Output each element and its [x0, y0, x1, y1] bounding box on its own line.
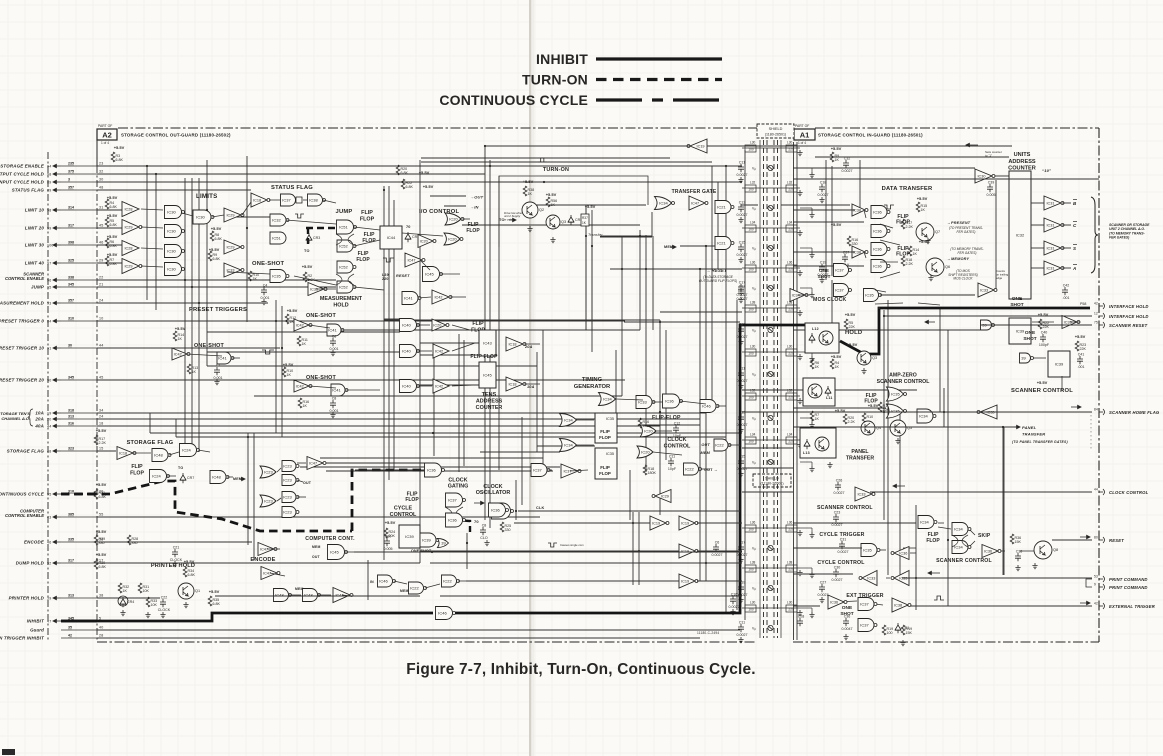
- svg-text:IC42: IC42: [174, 353, 182, 357]
- svg-text:0.001: 0.001: [330, 409, 339, 413]
- svg-text:23: 23: [99, 162, 103, 166]
- stub wire 39: [576, 444, 594, 446]
- svg-text:15K: 15K: [1015, 540, 1022, 544]
- shield row wire 3: [742, 187, 800, 189]
- svg-text:6.8K: 6.8K: [99, 565, 107, 569]
- stub wire 50: [133, 452, 151, 454]
- svg-text:HOLD: HOLD: [333, 303, 348, 309]
- svg-text:IC20: IC20: [433, 324, 441, 328]
- rail computer-control-enable: [97, 516, 540, 518]
- shield row ground right 21: [797, 610, 802, 616]
- svg-text:CONTINUOUS CYCLE: CONTINUOUS CYCLE: [0, 492, 45, 497]
- stub wire 96: [1061, 376, 1063, 390]
- svg-text:2.2K: 2.2K: [99, 441, 107, 445]
- NAND gate IC35 one-shot: [270, 270, 289, 283]
- svg-text:FLIP: FLIP: [928, 532, 939, 538]
- wire junction 6: [489, 165, 491, 167]
- svg-text:C11: C11: [739, 621, 745, 625]
- svg-text:L34: L34: [750, 433, 756, 437]
- resistor R11 22K: [878, 402, 889, 412]
- svg-text:IC45: IC45: [483, 373, 492, 378]
- svg-text:P58: P58: [1080, 302, 1086, 306]
- NAND gate IC37 ext b: [858, 619, 877, 632]
- rail 20A: [97, 418, 700, 420]
- strip extra ground 418: [809, 422, 814, 428]
- svg-text:JUMP: JUMP: [336, 209, 353, 215]
- capacitor C36 ext: [842, 615, 853, 632]
- svg-text:CONTROL ENABLE: CONTROL ENABLE: [5, 513, 44, 518]
- svg-text:SCANNER CONTROL: SCANNER CONTROL: [817, 505, 873, 511]
- resistor R10 1K: [248, 271, 259, 281]
- label MEASUREMENT HOLD: [320, 296, 363, 309]
- svg-text:39: 39: [441, 541, 446, 546]
- transistor Q3: [546, 215, 566, 229]
- stub wire 93: [1032, 321, 1054, 323]
- shield crossing circle 2: [768, 165, 773, 170]
- NAND gate IC34 skip c: [952, 541, 971, 554]
- label CLOCK GATING: [448, 478, 469, 490]
- NAND gate IC38 ff b1: [871, 243, 890, 256]
- rail printer-hold: [97, 597, 160, 599]
- legend inhibit solid line: [596, 57, 722, 60]
- strip extra stub 418: [800, 417, 812, 419]
- svg-text:91: 91: [47, 347, 51, 351]
- svg-text:IC23: IC23: [264, 470, 273, 475]
- stub wire 47: [728, 444, 740, 446]
- stub wire 41: [652, 401, 662, 403]
- buffer IC18 storage flag: [117, 447, 136, 460]
- rail a1 top1: [815, 156, 1009, 158]
- svg-text:0.0027: 0.0027: [729, 605, 740, 609]
- svg-text:IC42: IC42: [296, 385, 304, 389]
- buffer IC31 counter out A: [1044, 261, 1064, 275]
- bus a1 v9: [825, 160, 827, 280]
- rail web y237: [600, 236, 652, 238]
- bus v13: [705, 246, 707, 581]
- svg-text:0.0027: 0.0027: [737, 633, 748, 637]
- resistor R11 1K: [297, 336, 308, 346]
- bus a1 v7: [995, 180, 997, 290]
- label FLIP FLOP 3: [356, 251, 370, 263]
- rail bm b: [420, 550, 679, 552]
- svg-text:18: 18: [99, 422, 103, 426]
- flip-flop IC35 timing upper: [595, 413, 617, 443]
- shield crossing inductor L32 right: [786, 389, 797, 401]
- capacitor C22 clock: [158, 596, 171, 613]
- heavy inhibit trace: [61, 613, 433, 621]
- svg-text:PRESET TRIGGERS: PRESET TRIGGERS: [189, 307, 247, 313]
- phototransistor in L11: [808, 384, 822, 398]
- shield crossing circle 6: [768, 245, 773, 250]
- buffer IC42 preset20: [294, 380, 312, 392]
- strip extra ground 248: [809, 252, 814, 258]
- buffer IC42 preset10: [172, 348, 190, 360]
- overbar output letter B: [1073, 199, 1077, 201]
- shield crossing inductor L38 right: [786, 561, 797, 573]
- svg-text:+5.5V: +5.5V: [831, 354, 842, 359]
- svg-text:Q1: Q1: [195, 589, 200, 593]
- svg-text:B: B: [1073, 201, 1077, 206]
- rail print command row: [902, 577, 1092, 579]
- A2 left border stub: [96, 140, 98, 166]
- NAND gate IC52 meas FF a: [337, 261, 356, 273]
- svg-text:0.0027: 0.0027: [842, 169, 853, 173]
- svg-text:RESET: RESET: [1109, 538, 1124, 543]
- svg-text:1 of 4: 1 of 4: [101, 141, 109, 145]
- NAND gate IC30 limits 1: [165, 206, 185, 219]
- resistor R13 1K: [187, 364, 198, 374]
- svg-text:L32: L32: [787, 389, 793, 393]
- svg-text:IC48: IC48: [275, 593, 284, 598]
- output connector PRINT COMMAND 579: [1099, 578, 1103, 580]
- svg-text:MEM: MEM: [400, 589, 409, 593]
- pulse symbol status: [295, 214, 304, 218]
- svg-text:313: 313: [68, 415, 74, 419]
- rail dt b: [793, 251, 855, 253]
- input stub wire LIMIT 20: [61, 227, 97, 229]
- svg-text:IC47: IC47: [407, 259, 415, 263]
- svg-text:IC37: IC37: [448, 498, 457, 503]
- A1 guard rail a: [793, 142, 795, 640]
- arrow scanner reset mark: [925, 320, 935, 323]
- svg-text:L30: L30: [787, 345, 793, 349]
- stub wire 24: [309, 325, 330, 328]
- stub wire 9: [303, 199, 307, 201]
- svg-text:0.0027: 0.0027: [737, 379, 748, 383]
- svg-text:IC41: IC41: [328, 328, 337, 333]
- resistor R35 6.8K: [208, 596, 220, 606]
- svg-text:IC29: IC29: [226, 246, 234, 250]
- rail a1 amp-zero: [742, 389, 886, 391]
- input arrow LIMIT 30: [53, 243, 61, 246]
- capacitor C20: [384, 535, 393, 552]
- svg-text:IC48: IC48: [212, 475, 221, 480]
- stub wire 26: [187, 354, 222, 356]
- output connector PRINT COMMAND 587: [1099, 586, 1103, 588]
- svg-text:FLIP-FLOP: FLIP-FLOP: [652, 415, 681, 421]
- buffer IC42 io: [432, 290, 452, 304]
- svg-text:is on/off: is on/off: [504, 217, 515, 221]
- transistor Q8: [1034, 541, 1058, 559]
- bus a1 v4: [1003, 427, 1005, 575]
- svg-text:IC40: IC40: [402, 349, 411, 354]
- resistor R20 6.8K: [396, 165, 408, 175]
- strip extra stub 608: [800, 607, 812, 609]
- svg-text:FLIP: FLIP: [358, 251, 369, 257]
- stub wire 57: [297, 480, 303, 482]
- transistor Q1 printer: [178, 583, 200, 599]
- rail dt a: [793, 209, 855, 211]
- svg-text:EXTERNAL TRIGGER: EXTERNAL TRIGGER: [1109, 604, 1155, 609]
- rail web y312: [660, 311, 742, 313]
- svg-text:→IN: →IN: [470, 205, 479, 210]
- svg-text:(1180-26501): (1180-26501): [765, 133, 786, 137]
- rail web y463: [326, 462, 430, 464]
- AND gate IC51 input: [270, 232, 286, 244]
- svg-text:L34: L34: [750, 221, 756, 225]
- svg-text:40: 40: [99, 626, 103, 630]
- shield bypass cap ground 14: [738, 427, 743, 433]
- rail web y471: [326, 470, 553, 472]
- stub wire 65: [458, 580, 470, 582]
- flip-flop IC43 tens: [479, 330, 496, 356]
- label AMP-ZERO SCANNER CONTROL: [877, 373, 931, 386]
- stub wire 17: [354, 287, 384, 290]
- note to present transfer: [949, 226, 983, 234]
- shield crossing inductor L32 right: [786, 181, 797, 193]
- rail web y322: [624, 321, 740, 323]
- svg-text:1K: 1K: [303, 404, 308, 408]
- shield crossing inductor L36 right: [786, 521, 797, 533]
- A1 board top dash-dot border: [815, 127, 1099, 129]
- svg-text:IC37: IC37: [835, 288, 844, 293]
- svg-text:IC30: IC30: [196, 215, 205, 220]
- input stub wire 40A: [61, 425, 97, 427]
- bus a1 v8: [831, 280, 833, 323]
- svg-text:+5.5V: +5.5V: [845, 312, 856, 317]
- svg-text:2.2K: 2.2K: [906, 225, 914, 229]
- shield row wire 15: [742, 439, 800, 441]
- svg-text:+5.5V: +5.5V: [114, 145, 125, 150]
- transistor Q2: [522, 202, 544, 218]
- svg-text:DUMP HOLD: DUMP HOLD: [16, 561, 45, 566]
- strip extra stub 528: [800, 527, 812, 529]
- left guard dash-dot boundary: [47, 152, 49, 642]
- ground q1: [183, 602, 188, 608]
- wire transfer path: [600, 212, 652, 236]
- OR gate IC23 a: [260, 466, 276, 478]
- strip extra stub 168: [800, 167, 812, 169]
- shield crossing circle 22: [768, 625, 773, 630]
- stub wire 72: [864, 252, 866, 258]
- wire junction 11: [351, 469, 353, 471]
- rail web y217: [232, 216, 270, 218]
- buffer IC33 ccl b: [891, 571, 909, 586]
- label FLIP FLOP tens1: [471, 321, 485, 333]
- wire junction 25: [281, 347, 283, 349]
- NAND gate IC23 b: [282, 461, 299, 472]
- drop 10A to web: [149, 413, 151, 433]
- svg-text:SKIP: SKIP: [978, 533, 991, 539]
- svg-text:1K: 1K: [921, 208, 926, 212]
- buffer IC20 tens: [432, 319, 449, 331]
- arrow ext trigger: [1080, 601, 1090, 604]
- rail bm c: [466, 580, 679, 582]
- stub wire 12: [354, 227, 380, 230]
- NAND gate IC36 osc ff: [446, 513, 466, 527]
- svg-text:CR7: CR7: [187, 476, 194, 480]
- svg-text:IC37: IC37: [835, 268, 844, 273]
- wire junction 29: [638, 550, 640, 552]
- rail a1 y266: [793, 265, 864, 267]
- stub wire 48: [570, 470, 588, 471]
- shield row wire 7: [742, 267, 800, 269]
- stub wire 95: [1033, 357, 1046, 359]
- svg-text:+5.5V: +5.5V: [211, 226, 222, 231]
- stub wire 53: [167, 475, 176, 477]
- svg-text:6.8K: 6.8K: [401, 171, 409, 175]
- buffer IC31 counter out C: [1044, 218, 1064, 232]
- svg-text:FLIP: FLIP: [131, 464, 143, 470]
- bus v27: [717, 182, 719, 269]
- strip extra ground 352: [809, 356, 814, 362]
- NAND gate IC41 preset10: [217, 352, 234, 364]
- bus v44: [591, 210, 593, 330]
- wire junction 40: [705, 562, 707, 564]
- svg-text:10A: 10A: [527, 385, 535, 389]
- stub wire 67: [318, 594, 331, 596]
- wire junction 30: [915, 577, 917, 579]
- counter buffer in stub 3: [1031, 247, 1044, 249]
- svg-text:6.8K: 6.8K: [110, 223, 118, 227]
- bus v1: [146, 166, 148, 300]
- shield crossing circle 8: [768, 285, 773, 290]
- rail preset-trigger-0: [97, 320, 625, 322]
- svg-text:FLOP: FLOP: [466, 228, 480, 234]
- bus osc v1: [466, 533, 468, 569]
- rail bm out a: [697, 522, 742, 524]
- strip extra ground 208: [809, 212, 814, 218]
- heavy turn-on dash vertical: [307, 228, 309, 248]
- wire junction 21: [184, 279, 186, 281]
- svg-text:IC42: IC42: [434, 296, 442, 300]
- svg-text:Q8: Q8: [1053, 548, 1058, 552]
- svg-text:357: 357: [68, 186, 74, 190]
- resistor R28 330: [127, 535, 138, 545]
- OR gate IC20 cc b: [637, 446, 653, 458]
- svg-text:0.005: 0.005: [384, 547, 393, 551]
- rail scanner-control-enable: [97, 279, 336, 281]
- shield bypass capacitor row 20: [737, 581, 748, 598]
- svg-text:IC20: IC20: [449, 217, 458, 222]
- bus v22: [665, 330, 667, 460]
- svg-text:L34: L34: [787, 221, 793, 225]
- ground c38: [1015, 565, 1020, 571]
- bus v18: [725, 166, 727, 613]
- overbar output letter A: [1073, 264, 1077, 266]
- resistor R8 1K: [810, 434, 819, 444]
- shield dashed screen line 4: [777, 140, 779, 638]
- wire top inverter left: [485, 145, 690, 147]
- svg-text:98: 98: [47, 209, 51, 213]
- rail dump-hold: [97, 562, 420, 564]
- svg-text:L30: L30: [787, 601, 793, 605]
- svg-text:SHOT: SHOT: [818, 274, 831, 279]
- svg-text:IC21: IC21: [717, 241, 726, 246]
- bus v29: [247, 433, 249, 545]
- label ONE SHOT dt: [818, 268, 831, 279]
- svg-text:IC23: IC23: [264, 499, 273, 504]
- stub wire 27: [231, 357, 240, 359]
- NAND gate IC48 ph b: [303, 589, 321, 602]
- svg-text:C22: C22: [161, 596, 168, 600]
- resistor R23 22K: [1075, 341, 1086, 351]
- capacitor C28 strip: [797, 615, 804, 627]
- resistor R30 6.8K: [94, 559, 106, 569]
- input arrow LIMIT 20: [53, 226, 61, 229]
- svg-text:CONTROL: CONTROL: [390, 512, 417, 518]
- input stub wire PRINTER HOLD: [61, 597, 97, 599]
- buffer IC33 sc: [1062, 316, 1080, 329]
- NAND gate IC39 cycle: [420, 533, 439, 547]
- label CYCLE CONTROL left: [390, 506, 417, 519]
- diode CR3: [306, 233, 320, 243]
- capacitor C41 .001: [1077, 353, 1085, 370]
- svg-text:IC45: IC45: [330, 550, 339, 555]
- OR gate IC20 io b: [444, 233, 463, 245]
- svg-text:IC48: IC48: [304, 593, 313, 598]
- stub wire 16: [316, 288, 336, 290]
- NAND gate IC38 status: [308, 194, 326, 206]
- shield solid rail right: [780, 140, 782, 638]
- bus v3: [184, 178, 186, 445]
- svg-text:IC47: IC47: [260, 548, 268, 552]
- heavy inhibit trace right: [455, 325, 806, 613]
- shield row ground right 15: [797, 442, 802, 448]
- stub wire 60: [267, 548, 280, 550]
- stub wire 20: [420, 260, 430, 270]
- bus v45: [458, 334, 460, 472]
- wire junction 10: [383, 189, 385, 191]
- bus v16: [419, 160, 421, 563]
- stub wire 28: [309, 386, 336, 388]
- output connector CLOCK CONTROL 492: [1099, 491, 1103, 493]
- svg-text:C21: C21: [173, 546, 180, 550]
- svg-text:MEM: MEM: [701, 451, 711, 455]
- capacitor C40 100pF: [1039, 331, 1050, 348]
- svg-text:IC38: IC38: [309, 198, 318, 203]
- input stub wire INPUT CYCLE HOLD: [61, 181, 97, 183]
- svg-text:FER GATES): FER GATES): [958, 251, 977, 255]
- wire junction 1: [146, 165, 148, 167]
- svg-text:STORAGE FLAG: STORAGE FLAG: [7, 449, 45, 454]
- bus v28: [253, 433, 255, 560]
- NAND gate IC40 tens 1: [400, 319, 420, 332]
- resistor R25 330: [500, 522, 511, 532]
- svg-text:ONE-SHOT: ONE-SHOT: [306, 375, 337, 381]
- NAND gate IC23 e: [282, 492, 299, 503]
- bus v21: [393, 200, 395, 470]
- stub wire 62: [345, 551, 360, 553]
- stub wire 49: [547, 469, 552, 471]
- shield row wire 19: [742, 567, 800, 569]
- NAND gate IC33 timing: [636, 396, 655, 409]
- svg-text:IC38: IC38: [853, 251, 861, 255]
- input arrow LIMIT 10: [53, 208, 61, 211]
- resistor R6 6.8K limit 3: [105, 238, 117, 248]
- svg-text:313: 313: [68, 594, 74, 598]
- buffer IC42 preset0: [294, 319, 312, 331]
- rail web y158: [421, 157, 670, 159]
- shield crossing inductor L32 left: [745, 181, 756, 193]
- svg-text:CONTROL ENABLE: CONTROL ENABLE: [5, 276, 44, 281]
- wire junction 37: [585, 235, 587, 237]
- NAND gate IC38 ff a1: [871, 206, 890, 219]
- svg-text:L32: L32: [750, 181, 756, 185]
- output connector INTERFACE HOLD 316: [1099, 315, 1103, 317]
- svg-text:L30: L30: [750, 601, 756, 605]
- heavy continuous-cycle vertical: [352, 470, 424, 531]
- svg-text:TRANSFER: TRANSFER: [846, 455, 874, 461]
- svg-text:IC36: IC36: [873, 210, 882, 215]
- dotted service line: [1090, 415, 1092, 450]
- svg-text:95: 95: [47, 493, 51, 497]
- svg-text:GATING: GATING: [448, 484, 469, 490]
- wire junction 23: [198, 302, 200, 304]
- wire junction 33: [947, 539, 949, 541]
- svg-text:IC38: IC38: [894, 604, 902, 608]
- ground C7: [214, 379, 219, 385]
